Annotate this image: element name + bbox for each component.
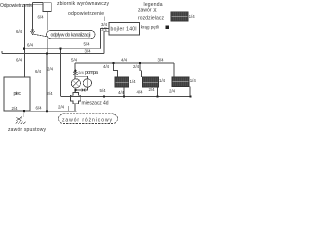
svg-text:1/4: 1/4 (159, 78, 166, 83)
svg-text:6/4: 6/4 (35, 69, 42, 74)
svg-text:2/4: 2/4 (47, 91, 54, 96)
svg-text:Odpowietrzenie: Odpowietrzenie (0, 3, 33, 9)
svg-text:2/4: 2/4 (149, 87, 156, 92)
svg-text:2/4: 2/4 (133, 64, 140, 69)
svg-text:mieszacz 4d: mieszacz 4d (82, 101, 109, 107)
svg-text:odpływ do kanalizacji: odpływ do kanalizacji (51, 33, 91, 39)
svg-text:piec: piec (14, 91, 22, 97)
svg-text:6/4: 6/4 (16, 29, 23, 34)
svg-text:2/4: 2/4 (12, 106, 19, 111)
svg-text:6/4: 6/4 (38, 15, 45, 20)
svg-text:1/2: 1/2 (101, 26, 108, 31)
svg-text:zbiornik wyrównawczy: zbiornik wyrównawczy (57, 1, 110, 7)
svg-text:6/4: 6/4 (36, 105, 43, 110)
svg-text:X: X (153, 8, 157, 14)
svg-text:3/4: 3/4 (158, 58, 165, 63)
svg-text:zawór różnicowy: zawór różnicowy (62, 117, 113, 123)
svg-text:6/4: 6/4 (16, 58, 23, 63)
svg-text:4/4: 4/4 (121, 57, 128, 62)
svg-text:3/4: 3/4 (85, 49, 92, 54)
svg-text:zawór: zawór (138, 7, 152, 13)
svg-text:1/4: 1/4 (190, 78, 197, 83)
svg-text:zawór spustowy: zawór spustowy (8, 127, 47, 133)
svg-text:6/4: 6/4 (27, 43, 34, 48)
svg-text:krąg pętli: krąg pętli (141, 25, 159, 30)
svg-text:pompa: pompa (85, 70, 98, 76)
svg-text:4/4: 4/4 (137, 90, 144, 95)
svg-text:5/4: 5/4 (84, 41, 91, 46)
svg-text:5/4: 5/4 (100, 88, 107, 93)
svg-text:4/4: 4/4 (103, 64, 110, 69)
svg-text:2/4: 2/4 (169, 89, 176, 94)
svg-text:2/4: 2/4 (78, 70, 84, 75)
svg-text:1/4: 1/4 (130, 79, 137, 84)
svg-text:bojler 140l: bojler 140l (111, 27, 137, 33)
svg-text:2/4: 2/4 (58, 105, 65, 110)
svg-text:4/4: 4/4 (118, 90, 125, 95)
svg-text:1/4: 1/4 (189, 14, 196, 19)
svg-text:odpowietrzenie: odpowietrzenie (68, 11, 104, 17)
svg-text:rozdzielacz: rozdzielacz (138, 16, 165, 22)
svg-text:2/4: 2/4 (47, 67, 54, 72)
svg-text:5/4: 5/4 (71, 57, 78, 62)
